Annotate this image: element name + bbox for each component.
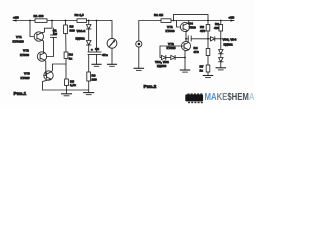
node junction colA mid bbox=[207, 38, 209, 40]
transistor VT2 bbox=[20, 49, 47, 62]
svg-text:470: 470 bbox=[200, 29, 205, 33]
resistor R4 bbox=[64, 52, 73, 79]
meter P1 bbox=[107, 38, 117, 48]
svg-text:+: + bbox=[91, 48, 93, 52]
svg-text:C2: C2 bbox=[95, 47, 99, 51]
node junction bracket left bbox=[173, 20, 175, 22]
node +3V supply arrow bbox=[231, 19, 235, 21]
wire meter branch corner bbox=[111, 21, 113, 39]
wire VT2 emitter to VT3 base bbox=[44, 60, 46, 75]
ground under R7 bbox=[203, 76, 212, 78]
svg-text:1к: 1к bbox=[200, 68, 204, 72]
svg-text:VD1-2: VD1-2 bbox=[77, 29, 86, 33]
svg-text:КТ368: КТ368 bbox=[166, 29, 175, 33]
node junction colA top bbox=[207, 20, 209, 22]
ground under colB bbox=[216, 68, 225, 70]
resistor R3 bbox=[64, 21, 75, 53]
wire top rail bbox=[139, 21, 234, 42]
resistor R1 bbox=[35, 19, 47, 23]
svg-text:+3В: +3В bbox=[229, 16, 236, 20]
wire bottom rail bbox=[43, 89, 89, 91]
svg-text:КД521: КД521 bbox=[76, 37, 86, 41]
wire C2 branch bbox=[96, 21, 98, 53]
wire feedback bracket bbox=[174, 15, 209, 21]
node junction C2 (96.5,20.5) bbox=[96, 20, 98, 22]
wire VT1 collector to rail bbox=[188, 21, 189, 24]
resistor R6 bbox=[87, 55, 97, 93]
resistor R6 bbox=[214, 21, 223, 50]
svg-text:220: 220 bbox=[92, 77, 97, 81]
diode VD5 bbox=[219, 50, 223, 58]
wire top rail bbox=[13, 20, 111, 22]
svg-text:MAKE$HEMA: MAKE$HEMA bbox=[205, 92, 255, 103]
svg-text:VD3, VD4: VD3, VD4 bbox=[223, 37, 237, 41]
ground under R6 bbox=[84, 93, 94, 95]
resistor R2 bbox=[77, 19, 87, 23]
microphone BM1 bbox=[136, 41, 142, 47]
resistor R3 bbox=[200, 21, 210, 49]
ground under bottom rail bbox=[62, 90, 72, 96]
svg-text:1к: 1к bbox=[69, 56, 73, 60]
resistor R4 bbox=[194, 46, 210, 65]
wire VD2 to C2 top plate bbox=[88, 45, 90, 52]
wire VT2 collector bbox=[185, 39, 187, 42]
wire VT3 emitter down to bottom rail bbox=[43, 79, 52, 90]
capacitor C4 bbox=[186, 22, 208, 41]
wire VT2 emitter to ground bbox=[185, 50, 189, 70]
diode VD6 bbox=[219, 58, 223, 68]
transistor VT1 bbox=[13, 32, 44, 44]
diode VD1 bbox=[162, 55, 171, 59]
svg-text:R1 1М: R1 1М bbox=[154, 13, 164, 17]
svg-text:470: 470 bbox=[194, 50, 199, 54]
svg-text:КТ361Б: КТ361Б bbox=[13, 39, 25, 43]
wire VT3 collector up bbox=[51, 64, 66, 72]
capacitor C2 bbox=[88, 47, 108, 57]
diode VD2 bbox=[155, 55, 185, 68]
resistor R1 bbox=[161, 19, 171, 23]
svg-text:1м: 1м bbox=[53, 31, 58, 35]
resistor R5 bbox=[65, 79, 77, 90]
wire VT1 emitter down bbox=[186, 31, 188, 39]
wire VT1 base bbox=[177, 21, 181, 28]
transistor VT2 bbox=[167, 41, 191, 50]
svg-text:КТ315: КТ315 bbox=[21, 76, 30, 80]
transistor VT1 bbox=[166, 22, 190, 33]
wire VT2 base chain bbox=[160, 46, 184, 58]
svg-text:910: 910 bbox=[70, 29, 75, 33]
node junction colB mid bbox=[220, 38, 222, 40]
node junction C1 (52,20.5) bbox=[51, 20, 53, 22]
svg-text:7500: 7500 bbox=[189, 25, 196, 29]
svg-text:КТ368: КТ368 bbox=[20, 53, 29, 57]
svg-text:Рис.2: Рис.2 bbox=[144, 84, 157, 90]
svg-text:+9В: +9В bbox=[13, 16, 20, 20]
node junction VD top (88.7,20.5) bbox=[88, 20, 90, 22]
svg-text:КТ315: КТ315 bbox=[167, 46, 176, 50]
transistor VT3 bbox=[21, 71, 54, 80]
node +9V supply arrow bbox=[13, 19, 17, 21]
node junction colB top bbox=[220, 20, 222, 22]
resistor R7 bbox=[200, 64, 210, 75]
svg-text:47м: 47м bbox=[102, 53, 108, 57]
node junction R3 top (65.5,20.5) bbox=[65, 20, 67, 22]
ground under C2 bbox=[92, 55, 101, 67]
diode VD3 bbox=[208, 37, 237, 47]
svg-text:430: 430 bbox=[214, 26, 219, 30]
wire VT1 collector to VT2 collector bbox=[42, 40, 44, 52]
node junction emitter chain bbox=[184, 57, 186, 59]
svg-text:КД521: КД521 bbox=[224, 43, 234, 47]
svg-text:КД503: КД503 bbox=[157, 64, 167, 68]
wire VT1 base branch bbox=[30, 21, 34, 37]
svg-text:R1 430: R1 430 bbox=[34, 14, 44, 18]
wire VT1 emitter to rail node bbox=[42, 21, 53, 33]
node junction A (30,20.5) bbox=[29, 20, 31, 22]
svg-text:R2 1,5: R2 1,5 bbox=[75, 13, 84, 17]
wire C1 to VT2 base bbox=[46, 37, 53, 56]
svg-text:Рис.1: Рис.1 bbox=[14, 91, 27, 97]
logo chip icon bbox=[185, 93, 203, 103]
ground under mic bbox=[134, 47, 143, 70]
diode VD2 bbox=[76, 29, 92, 45]
capacitor C1 bbox=[51, 28, 58, 37]
diode VD1 bbox=[86, 21, 91, 30]
ground under meter bbox=[108, 48, 117, 66]
ground under VT2 bbox=[180, 70, 189, 72]
svg-text:1,5к: 1,5к bbox=[70, 83, 76, 87]
